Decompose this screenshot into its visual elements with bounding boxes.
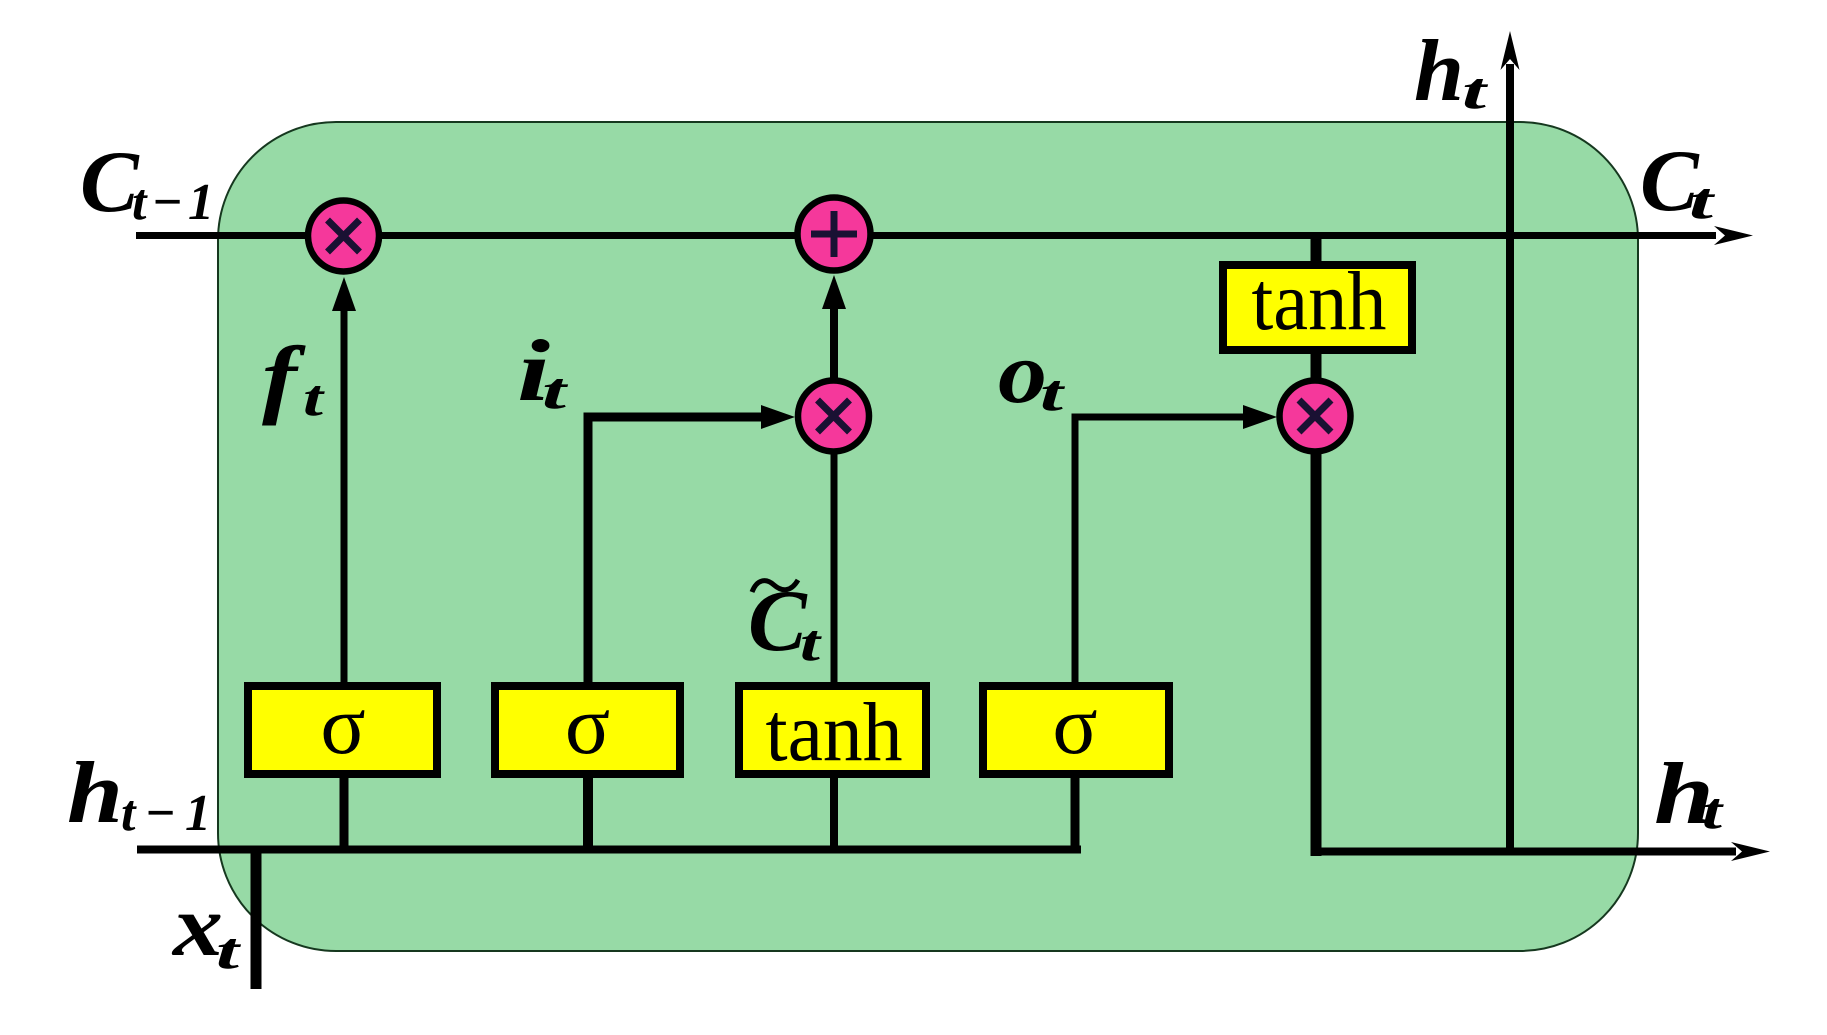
svg-text:t: t [1689, 173, 1716, 230]
svg-text:t: t [303, 370, 325, 427]
svg-text:h: h [1414, 23, 1464, 120]
svg-text:t: t [542, 363, 569, 420]
svg-text:σ: σ [1052, 679, 1097, 772]
svg-text:C: C [80, 134, 140, 231]
svg-text:tanh: tanh [1252, 255, 1387, 348]
svg-text:σ: σ [320, 679, 365, 772]
svg-text:t: t [800, 615, 822, 672]
svg-text:t−1: t−1 [132, 174, 219, 231]
svg-text:t: t [216, 923, 241, 980]
svg-text:σ: σ [565, 679, 610, 772]
svg-text:t−1: t−1 [121, 785, 220, 842]
svg-text:t: t [1702, 783, 1724, 840]
svg-text:t: t [1040, 365, 1065, 422]
svg-text:t: t [1462, 63, 1489, 120]
svg-text:h: h [67, 745, 123, 842]
svg-text:tanh: tanh [766, 686, 903, 779]
